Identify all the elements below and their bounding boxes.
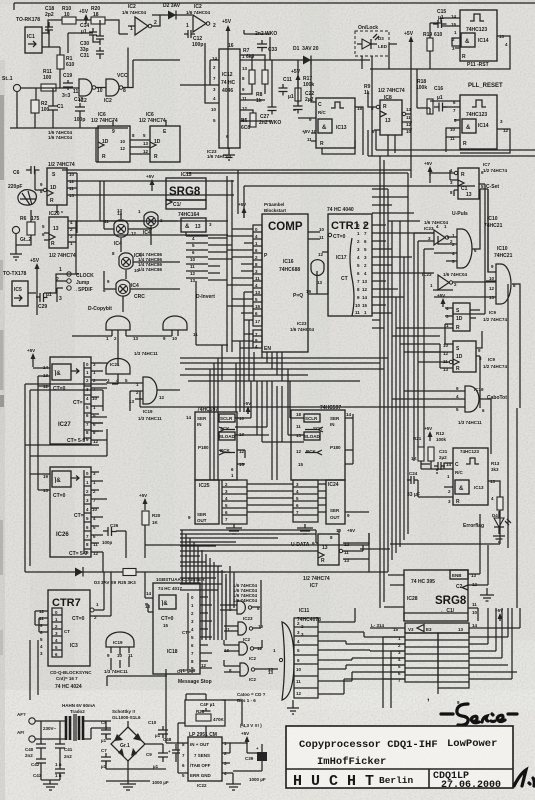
diode D1 (270, 46, 370, 65)
resistor R26 (196, 709, 225, 722)
label Praeambel Blockstart (264, 202, 287, 213)
shift register SRG8 IC20 74HC395 (404, 570, 478, 621)
capacitor C41 (55, 739, 73, 759)
capacitor C16 (434, 86, 448, 112)
IC14 74HC123 upper monoflop (451, 10, 508, 61)
flip-flop IC6b (139, 112, 180, 162)
wires ic20b (44, 221, 228, 274)
main input wire (21, 69, 79, 102)
wires ic19c (111, 647, 129, 670)
resistor R20b (142, 511, 161, 525)
long wires top mid (62, 170, 475, 352)
ground IC12 (223, 155, 235, 160)
dense left bus verticals (182, 530, 226, 640)
ground regulator (226, 753, 262, 790)
wires ic7 (430, 170, 485, 314)
output ladder right column (438, 633, 469, 688)
74HC164 AND box (181, 218, 212, 232)
AND gate IC21b (163, 316, 187, 341)
ground rail (10, 92, 128, 128)
big left loop wires (25, 384, 107, 572)
vertical bus bundle (380, 156, 424, 608)
+5V arrow right (404, 31, 414, 178)
+5V ic7 (424, 161, 433, 176)
capacitor C7 (101, 748, 111, 769)
ground errorflag (493, 536, 505, 542)
+5V srg8b (495, 608, 503, 621)
resistor R19 (423, 32, 443, 51)
AND gate IC19c (104, 632, 134, 674)
handwritten Serie (441, 704, 517, 725)
wires 123b (418, 444, 500, 516)
nested horizontal bus (180, 281, 388, 381)
ground ic25 (226, 524, 242, 534)
ground bridge (106, 769, 150, 790)
capacitor C40 (25, 739, 46, 758)
top border line (14, 3, 535, 10)
gate IC2a inverter (73, 79, 103, 104)
label IC23 74HC04 (207, 149, 232, 159)
wires down from upper (30, 640, 167, 700)
resistor R1 (57, 55, 75, 69)
nand gate IC2e (224, 642, 263, 661)
counter CTR7 IC3 74HC4024 (39, 590, 99, 666)
resistor R5 (241, 113, 256, 131)
capacitor C18 (45, 6, 54, 35)
ground supply (41, 780, 60, 790)
ic26 right stubs (84, 477, 91, 549)
ground st2 (10, 210, 31, 260)
On/Lock LED box (355, 25, 389, 56)
capacitor C9 electrolytic (146, 744, 171, 769)
IC25 pin cells (222, 480, 247, 524)
IC24 register right (326, 480, 350, 524)
wires ic19b (140, 391, 491, 454)
connector St..1 (2, 76, 21, 92)
+5V arrow mid (291, 69, 301, 88)
resistor R20 (91, 6, 105, 24)
IC5 optical transmitter (12, 281, 28, 306)
label 13 11 (104, 208, 123, 224)
capacitor C6 (8, 166, 40, 190)
AND gate IC10b (489, 264, 516, 304)
wires gates mid (424, 189, 520, 408)
+5V r20 (139, 493, 148, 510)
inverter IC23b (422, 272, 468, 290)
wires primary (35, 721, 66, 739)
capacitor C26 (102, 523, 119, 545)
+5V r12 (424, 426, 433, 441)
wires comp left (227, 229, 253, 352)
handwritten 1.1 mark (514, 770, 534, 786)
box around r26 (185, 700, 225, 726)
capacitor C21 (434, 449, 448, 473)
label IC23 74HC04 (424, 220, 449, 231)
jumper CLOCK (59, 267, 94, 279)
wire to ic12 (128, 15, 160, 26)
label 1/2 74HC74 IC7 (303, 576, 330, 589)
resistor R18 (416, 79, 433, 114)
flip-flop IC9b (443, 341, 508, 372)
+5V ic27 (27, 348, 36, 367)
long wire row y152 (368, 130, 535, 156)
resistor R11 (41, 69, 56, 91)
label Catoo CD (237, 692, 266, 703)
ground ic24 (297, 524, 313, 534)
wire ff links (96, 120, 166, 162)
wires ic27 right outputs (91, 363, 107, 440)
big OR gate IC11 (268, 622, 299, 714)
flip-flop IC20 (40, 162, 75, 205)
title block outer box (286, 726, 513, 788)
mux pin cells (294, 618, 318, 698)
mid pin cells (293, 480, 318, 522)
comp bottom stubs (240, 348, 282, 381)
resistor R17 (295, 76, 314, 101)
IC25 register left (188, 480, 219, 524)
capacitor C42 (31, 752, 62, 780)
wires 597 outputs (237, 414, 353, 464)
capacitor C43 (33, 752, 65, 780)
transformer T1 (62, 703, 96, 741)
dense bus horizontals (180, 534, 316, 562)
resistor R13 (491, 461, 503, 510)
counter IC27 (43, 357, 99, 444)
IC14 74HC123 lower monoflop (450, 95, 509, 149)
+5V comp (238, 202, 247, 218)
74HC597 shift register right (291, 405, 352, 480)
wire mid join (42, 20, 100, 55)
wires srg8 pins right (186, 232, 232, 280)
wire top row (42, 20, 119, 34)
flip-flop IC7b (318, 528, 355, 565)
label message stop (178, 663, 212, 685)
label U-DATA (291, 541, 315, 548)
bus extra horizontals (180, 566, 234, 608)
wires v3 (370, 608, 520, 628)
gate P=Q nand (293, 260, 324, 299)
wires between 597s (235, 369, 304, 480)
capacitor C39 electrolytic (245, 744, 267, 771)
wires 4017 (145, 572, 212, 668)
resistor R25 (118, 569, 136, 586)
wires jumpers (28, 274, 79, 315)
resistor R10 (62, 6, 76, 24)
capacitor C33 (257, 40, 277, 53)
inverter IC23a (428, 224, 453, 245)
IC12 74HC4046 PLL (211, 43, 248, 148)
capacitor C48 (163, 737, 180, 762)
wire gate link (96, 34, 180, 88)
jumper SPDIF (59, 286, 93, 302)
capacitor C24 (407, 471, 420, 498)
monoflop IC13b 74HC123 (446, 448, 496, 505)
resistor R2 (31, 100, 50, 113)
nand gate IC23d (225, 622, 264, 642)
bridge rectifier Gr.1 (111, 727, 145, 761)
srg8 output pin boxes (190, 236, 208, 283)
capacitor C19 (62, 73, 73, 99)
IC13 74HC123 monoflop (302, 98, 363, 148)
xor gate IC4c (112, 251, 142, 273)
gate IC2c inverter (186, 4, 216, 32)
label 74HC86 stack (138, 252, 163, 272)
wires right mid (360, 284, 517, 608)
74HC597 shift register left (186, 407, 245, 480)
capacitor C12 (184, 30, 203, 48)
wires xor network (100, 181, 180, 312)
counter IC26 (43, 467, 99, 557)
resistor R9 (364, 84, 371, 96)
wires ic26 (30, 412, 107, 572)
COMP comparator IC16 (262, 214, 308, 352)
resistor R21 (411, 436, 424, 461)
wires around IC12 (180, 30, 272, 155)
xor gate IC4a (114, 211, 137, 247)
+5V srg8 (146, 174, 155, 191)
wires srg8b (384, 514, 488, 621)
wires mux right (318, 608, 405, 694)
wires lower 123 (417, 69, 510, 153)
wires ic9a (445, 308, 480, 344)
receiver box V3 E3 ladder header (405, 623, 478, 633)
wires ic27 left (33, 368, 50, 412)
comp column verticals (210, 341, 254, 480)
connector AF2 (17, 730, 35, 742)
jumper Jump (56, 277, 89, 286)
+5V supply arrow (79, 9, 89, 24)
+5V ic9 (437, 293, 446, 307)
resistor R7 (243, 48, 255, 84)
wires ic7b (180, 529, 369, 559)
label IC10 74HC21 (484, 216, 503, 229)
+5V 597 (243, 401, 251, 414)
bus tie wires (372, 189, 453, 352)
xor gate IC4b (138, 209, 163, 236)
capacitor C29 (36, 292, 52, 310)
left edge scan smudge (0, 60, 5, 800)
capacitor C8 (101, 720, 111, 743)
regulator LP2951 IC22 (182, 732, 227, 788)
resistor R12 (428, 431, 447, 461)
wire joins right (453, 189, 488, 314)
+5V left (30, 258, 40, 277)
wire onlock down (362, 56, 372, 156)
gate IC2 top (122, 4, 157, 35)
comp input pin cells (253, 225, 262, 326)
wires ic8 (368, 93, 412, 156)
connector St..2 (12, 226, 31, 243)
title divider (286, 769, 513, 788)
wires nand (220, 580, 261, 631)
wires ctr7 (35, 572, 111, 632)
resistor R6 (20, 216, 40, 235)
capacitor C4F (200, 702, 215, 718)
wires ic2ef (224, 640, 278, 672)
wires upper 123 (370, 18, 510, 69)
wires pins to buses (247, 484, 369, 512)
capacitor C22 (293, 91, 314, 114)
+5V out (241, 731, 250, 744)
resistor R8 (256, 92, 263, 104)
AND gate IC21c (106, 359, 130, 384)
comp q pin cells (253, 330, 262, 349)
capacitor C13 (74, 97, 85, 123)
flip-flop IC8 (371, 88, 412, 135)
wires into IC13 (298, 60, 363, 155)
wires ic9b (418, 331, 482, 408)
diode D2 (152, 3, 192, 20)
AND gate IC19a (129, 377, 165, 421)
+5V rail (222, 19, 232, 149)
LED D4 errorflag (463, 511, 511, 534)
wires r20/c26 (116, 525, 369, 558)
capacitor C11 (279, 77, 294, 100)
capacitor C30 C31 (80, 30, 104, 59)
label CD-Q-BLOCKSYNC (50, 670, 92, 690)
wires ic19a (99, 363, 180, 411)
flip-flop IC20b (42, 211, 76, 259)
AND gate IC21a (106, 316, 139, 341)
gate IC2b inverter (104, 73, 128, 104)
long wire y558 (25, 558, 369, 572)
counter 4017 IC18 (145, 583, 200, 674)
wires ic20 out (35, 170, 234, 233)
xor gate IC4d (103, 279, 139, 296)
diode D3 (75, 567, 117, 585)
wires ladder right (469, 608, 517, 679)
wires comp to ctr (308, 225, 434, 313)
nand gate IC2f (229, 663, 274, 682)
CTR1 2 counter IC17 (317, 214, 372, 316)
label Schottky (112, 709, 141, 720)
AND gate IC10a (452, 229, 477, 268)
output ladder left column (398, 633, 438, 683)
flip-flop IC9a (446, 303, 508, 331)
wires regulator (166, 669, 247, 773)
IC1 optical receiver (25, 27, 42, 53)
label 74HC04 stack (233, 583, 258, 603)
capacitor C14 (80, 23, 97, 39)
capacitor C1 (48, 102, 64, 114)
AND gate IC19b (456, 386, 507, 425)
wire y572 extension (369, 545, 388, 572)
capacitor C27 (259, 103, 281, 126)
wires ladder left (383, 637, 438, 708)
ic27 right stubs (84, 368, 91, 438)
microphone scribble (18, 190, 37, 206)
nand gate IC23c (229, 601, 260, 621)
wires bridge (83, 721, 166, 769)
flip-flop IC6a (91, 112, 135, 162)
capacitor C15 (433, 9, 447, 28)
label IC23 74HC04 bottom (290, 321, 315, 332)
capacitor C10 (148, 720, 168, 738)
ground srg8 (480, 588, 494, 601)
label IC11 74HC4078 (297, 608, 321, 637)
resistor R3b (262, 70, 268, 84)
SRG8 shift register IC15 (166, 178, 206, 218)
scan noise texture (0, 0, 1, 1)
flip-flop IC7 top (450, 162, 508, 199)
label IC10b 74HC21 (494, 246, 513, 259)
wires ic21 (72, 316, 178, 384)
label L-314 (371, 623, 399, 632)
connector AF1 (17, 712, 35, 724)
